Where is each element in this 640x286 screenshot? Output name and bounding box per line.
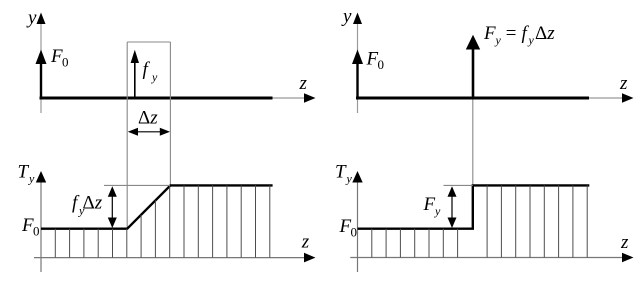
svg-text:y: y	[341, 6, 352, 27]
shear curve with step (bottom-right)	[358, 185, 590, 228]
label F0 (top-left)	[50, 46, 69, 70]
delta-z measurement double arrow	[128, 128, 170, 136]
T_y axis shaft (bottom-left)	[40, 182, 42, 272]
label T_y (bottom-right)	[335, 162, 353, 186]
label f_y	[143, 59, 159, 84]
hatching (bottom-right)	[372, 185, 587, 257]
distributed-load box left edge (extends to lower plot)	[126, 42, 128, 229]
label T_y (bottom-left)	[18, 162, 36, 186]
z-axis arrowhead (top-right)	[622, 93, 634, 103]
svg-text:0: 0	[378, 57, 385, 72]
T_y axis shaft (bottom-right)	[357, 182, 359, 272]
z-axis line (bottom-right)	[350, 257, 623, 259]
beam (thick z line, top-right)	[356, 97, 589, 100]
distributed-load box top edge	[127, 41, 170, 43]
label z (bottom-right)	[620, 232, 629, 253]
distributed load arrow f_y	[131, 50, 139, 98]
label y (top-right)	[341, 6, 352, 27]
z-axis thin extension (top-right)	[589, 97, 624, 99]
z-axis arrowhead (bottom-right)	[622, 253, 634, 263]
svg-text:y: y	[151, 70, 158, 84]
y-axis shaft (top-right)	[357, 24, 359, 113]
svg-text:Δz: Δz	[138, 108, 158, 129]
hatching (bottom-left)	[55, 185, 269, 257]
svg-text:F: F	[483, 23, 496, 44]
force arrow F0 (top-left)	[36, 50, 47, 100]
svg-text:0: 0	[62, 55, 69, 70]
svg-text:T: T	[18, 162, 30, 183]
upper-level reference line (bottom-left)	[104, 184, 170, 186]
label F0 (bottom-left)	[21, 215, 40, 239]
z-axis arrowhead (top-left)	[304, 93, 316, 103]
label F0 (bottom-right)	[339, 216, 358, 240]
point force arrow F_y	[466, 35, 480, 98]
svg-text:y: y	[434, 204, 441, 218]
svg-text:z: z	[619, 73, 628, 94]
svg-text:z: z	[299, 73, 308, 94]
y-axis shaft (top-left)	[40, 24, 42, 113]
T_y axis arrowhead (bottom-left)	[36, 171, 46, 183]
label f_y delta-z	[72, 193, 103, 218]
svg-text:y: y	[495, 33, 502, 47]
z-axis arrowhead (bottom-left)	[304, 253, 316, 263]
label F_y = f_y delta-z	[483, 23, 555, 47]
svg-text:=: =	[505, 23, 518, 44]
svg-text:y: y	[528, 33, 535, 47]
label delta-z	[138, 108, 158, 129]
T_y axis arrowhead (bottom-right)	[352, 171, 362, 183]
force arrow F0 (top-right)	[352, 50, 363, 100]
y-axis arrowhead (top-right)	[353, 13, 362, 25]
beam (thick z line, top-left)	[40, 97, 273, 100]
f_y delta-z measurement double arrow (vertical)	[108, 186, 117, 228]
z-axis line (bottom-left)	[34, 257, 305, 259]
svg-text:0: 0	[351, 225, 358, 240]
svg-text:Δz: Δz	[83, 193, 103, 214]
label F0 (top-right)	[366, 49, 385, 73]
svg-text:z: z	[620, 232, 629, 253]
F_y measurement double arrow (vertical)	[448, 186, 457, 228]
label z (top-left)	[299, 73, 308, 94]
svg-text:y: y	[28, 172, 35, 186]
svg-text:z: z	[301, 231, 310, 252]
svg-text:0: 0	[33, 224, 40, 239]
F_y action line (extends to lower plot)	[472, 100, 474, 186]
label y (top-left)	[26, 8, 37, 29]
y-axis arrowhead (top-left)	[37, 13, 46, 25]
label z (bottom-left)	[301, 231, 310, 252]
shear curve with ramp (bottom-left)	[41, 185, 273, 228]
distributed-load box right edge (extends to lower plot)	[169, 42, 171, 185]
svg-text:y: y	[26, 8, 37, 29]
label z (top-right)	[619, 73, 628, 94]
svg-text:Δz: Δz	[535, 23, 555, 44]
upper-level reference line (bottom-right)	[444, 184, 473, 186]
svg-text:y: y	[346, 172, 353, 186]
z-axis thin extension (top-left)	[273, 97, 306, 99]
svg-text:T: T	[335, 162, 347, 183]
label F_y (measurement)	[423, 194, 442, 218]
svg-text:F: F	[423, 194, 436, 215]
